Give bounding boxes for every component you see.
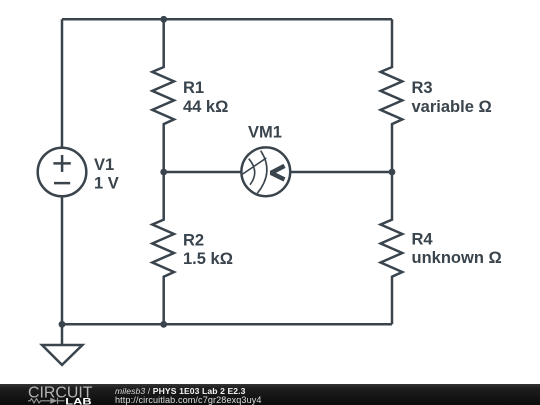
label V1 1 V: [94, 156, 119, 192]
resistor R4: [381, 172, 403, 324]
ground: [42, 345, 82, 365]
node top middle: [160, 16, 167, 23]
node middle left: [160, 169, 167, 176]
wire middle horizontal right: [290, 171, 392, 174]
wire top rail: [62, 18, 392, 21]
label R4 unknown Ω: [412, 230, 502, 267]
label VM1: [248, 123, 282, 141]
resistor R3: [381, 19, 403, 172]
svg-text:variable Ω: variable Ω: [412, 98, 492, 116]
label R2 1.5 kΩ: [183, 231, 233, 268]
svg-text:R2: R2: [183, 231, 204, 249]
svg-text:LAB: LAB: [65, 396, 92, 405]
resistor R2: [152, 172, 174, 324]
wire left rail top: [61, 19, 64, 148]
node middle right: [389, 169, 396, 176]
wire bottom rail: [62, 323, 392, 326]
footer bar: [0, 384, 540, 405]
wire middle horizontal left: [164, 171, 242, 174]
svg-text:unknown Ω: unknown Ω: [412, 249, 502, 267]
svg-text:R4: R4: [412, 230, 434, 248]
footer text line 2: [115, 395, 262, 405]
svg-text:V1: V1: [94, 156, 114, 174]
svg-text:R1: R1: [183, 79, 204, 97]
node bottom middle: [160, 321, 167, 328]
svg-text:1.5 kΩ: 1.5 kΩ: [183, 250, 233, 268]
label R1 44 kΩ: [183, 79, 228, 116]
resistor R1: [152, 19, 174, 172]
node bottom left: [59, 321, 66, 328]
wire left rail bottom: [61, 196, 64, 344]
svg-text:R3: R3: [412, 79, 433, 97]
CircuitLab logo: [28, 384, 108, 405]
voltage source V1: [38, 148, 87, 197]
svg-text:1 V: 1 V: [94, 175, 119, 193]
svg-text:VM1: VM1: [248, 123, 282, 141]
svg-text:44 kΩ: 44 kΩ: [183, 98, 228, 116]
footer text line 1: [115, 386, 246, 396]
label R3 variable Ω: [412, 79, 492, 116]
voltmeter VM1: [241, 147, 290, 196]
